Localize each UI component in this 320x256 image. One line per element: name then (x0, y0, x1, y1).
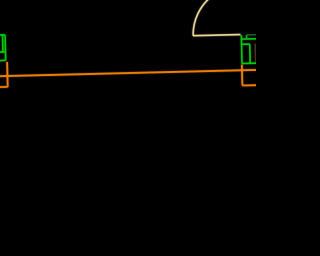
glow underlay (0, 0, 260, 92)
crisp core lines (0, 0, 260, 92)
